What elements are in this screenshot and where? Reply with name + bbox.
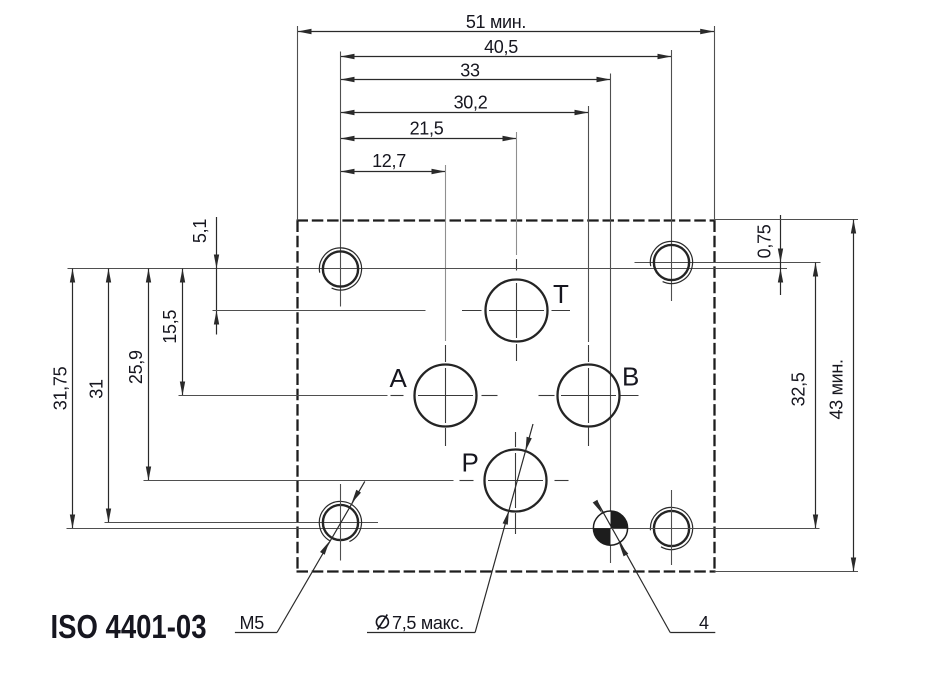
top stub plate top edge (43 upper ref) — [715, 219, 859, 221]
svg-text:32,5: 32,5 — [789, 372, 809, 406]
plate left edge — [296, 221, 298, 572]
leader diameter 7,5 max to port P — [367, 424, 533, 633]
hole BL inner circle — [323, 505, 358, 540]
hole TR thread arc — [650, 241, 692, 283]
port P — [460, 432, 569, 534]
dimension 30,2 — [341, 92, 589, 115]
port T upper centerline dash — [516, 259, 518, 271]
dimension 32,5 — [789, 263, 819, 529]
extension line x=445 down to port A — [445, 165, 447, 341]
svg-text:31: 31 — [87, 379, 107, 399]
dimension 5,1 vertical (arrows outside) — [190, 217, 219, 335]
port B centerline dashes — [539, 395, 555, 397]
dimension 25,9 vertical — [126, 269, 151, 481]
hole TL thread arc — [319, 248, 361, 290]
svg-text:4: 4 — [699, 613, 709, 633]
hole BL thread arc — [319, 501, 361, 541]
dimension 31,75 vertical — [51, 269, 76, 529]
mounting hole M5 top-left — [319, 248, 361, 290]
ref line bottom-left hole (31 lower ref) — [105, 522, 379, 524]
dimension 21,5 — [341, 119, 517, 142]
hole BR inner circle — [654, 511, 689, 546]
port A center cross — [418, 395, 473, 397]
bottom stub plate bottom edge (43 lower ref) — [715, 571, 859, 573]
extension line plate right edge top — [714, 26, 716, 221]
centerline row through top-left hole — [68, 268, 788, 270]
port T center cross — [489, 310, 544, 312]
hole BL vertical centerline — [340, 484, 342, 561]
hole BR vertical centerline — [671, 490, 673, 565]
port B center cross — [561, 395, 616, 397]
svg-text:15,5: 15,5 — [160, 310, 180, 344]
svg-text:B: B — [622, 362, 639, 392]
ref line port A level (15,5 lower ref) — [179, 395, 388, 397]
port P center cross — [488, 480, 543, 482]
plate right edge — [713, 221, 715, 572]
svg-text:12,7: 12,7 — [372, 151, 406, 171]
svg-text:7,5 макс.: 7,5 макс. — [392, 613, 464, 633]
extension line x=611 down to datum target — [610, 74, 612, 564]
ref line port P level (25,9 lower ref) — [144, 480, 454, 482]
dimension 43 min — [827, 220, 857, 572]
dimension 31 vertical — [87, 269, 112, 523]
port A — [390, 345, 498, 446]
datum target symbol (quartered circle) — [560, 501, 820, 552]
hole TL inner circle — [323, 251, 358, 286]
svg-text:33: 33 — [460, 60, 480, 80]
svg-text:A: A — [390, 363, 408, 393]
diameter symbol — [376, 616, 388, 628]
extension line plate left edge top — [297, 26, 299, 221]
svg-text:40,5: 40,5 — [484, 37, 518, 57]
dimension 40,5 — [341, 37, 672, 59]
svg-text:25,9: 25,9 — [126, 350, 146, 384]
dimension 12,7 — [341, 151, 446, 174]
long ref line bottom hole row (31,75 ref) — [67, 528, 820, 530]
port A centerline dashes — [391, 395, 404, 397]
port T — [462, 279, 570, 361]
port A circle — [415, 365, 477, 427]
svg-text:5,1: 5,1 — [190, 219, 210, 243]
svg-text:30,2: 30,2 — [454, 92, 488, 112]
mounting hole M5 bottom-left — [319, 484, 361, 561]
extension line x=671.5 down to top-right hole — [671, 50, 673, 301]
svg-text:0,75: 0,75 — [755, 224, 775, 258]
dimension 15,5 vertical — [160, 269, 185, 396]
port T centerline dashes — [462, 310, 482, 312]
svg-text:21,5: 21,5 — [410, 119, 444, 139]
mounting hole M5 top-right — [650, 241, 692, 283]
svg-text:43 мин.: 43 мин. — [827, 359, 847, 419]
dimension 0,75 (arrows outside) — [755, 215, 784, 295]
ref line port T level (5,1 lower ref) — [213, 310, 426, 312]
svg-text:T: T — [553, 279, 569, 309]
port T circle — [486, 280, 548, 342]
plate bottom edge — [297, 570, 716, 572]
svg-text:31,75: 31,75 — [51, 366, 71, 410]
svg-text:P: P — [462, 447, 479, 477]
svg-text:M5: M5 — [240, 613, 265, 633]
mounting hole M5 bottom-right — [650, 490, 692, 565]
port B circle — [558, 365, 620, 427]
leader 4 to datum target — [593, 500, 716, 633]
valve mounting plate outline (dashed) — [297, 221, 716, 572]
hole TR inner circle — [654, 245, 689, 280]
plate top edge — [297, 219, 716, 221]
hole BR thread arc — [650, 507, 692, 549]
port B — [539, 345, 640, 446]
svg-text:51 мин.: 51 мин. — [466, 12, 526, 32]
leader M5 to bottom-left hole — [235, 481, 365, 633]
extension line x=516 down to port T — [516, 132, 518, 255]
dimension 33 — [341, 60, 611, 82]
port P centerline dashes — [460, 480, 474, 482]
extension line x=340 hole column — [340, 52, 342, 307]
svg-text:ISO 4401-03: ISO 4401-03 — [51, 608, 207, 645]
port P circle — [485, 450, 547, 512]
extension line x=588 down to port B — [588, 106, 590, 342]
dimension 51 min — [298, 12, 715, 34]
centerline through top-right hole — [635, 262, 821, 264]
